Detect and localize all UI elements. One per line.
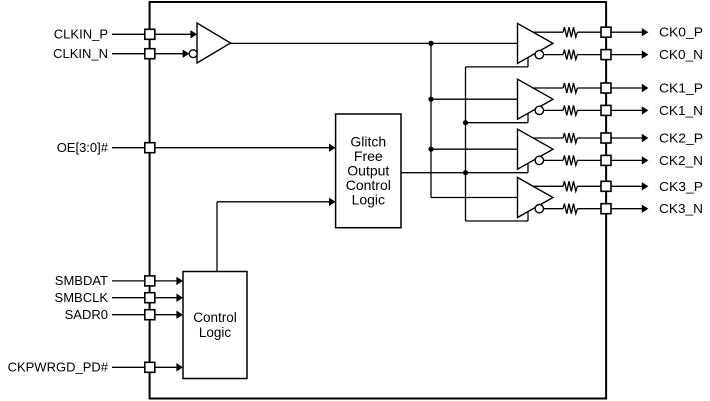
wire CK1_P pad to arrow — [611, 87, 642, 89]
junction clock rail at CK0 — [428, 41, 433, 46]
wire CK1_N pad to arrow — [611, 109, 642, 111]
wire enable rail vertical — [465, 67, 467, 221]
node pad CK0_N — [601, 50, 611, 60]
wire CLKIN_N pad to input buffer bubble — [155, 53, 184, 55]
node pad CK3_P — [601, 181, 611, 191]
wire SMBCLK label to pad — [112, 297, 145, 299]
op-amp output buffer CK1 — [518, 79, 554, 119]
wire CK1_N output — [543, 109, 563, 111]
wire CK3_P output — [533, 185, 563, 187]
svg-text:SMBCLK: SMBCLK — [55, 290, 109, 305]
op-amp output buffer CK3 — [518, 178, 554, 218]
node pad CLKIN_N — [145, 49, 155, 59]
junction clock rail at CK1 — [428, 97, 433, 102]
svg-text:CLKIN_P: CLKIN_P — [54, 27, 108, 42]
resistor R8 on CK3_N — [563, 204, 577, 214]
wire SADR0 label to pad — [112, 314, 145, 316]
junction clock rail at CK2 — [428, 147, 433, 152]
wire CK2_P output — [533, 137, 563, 139]
wire clock stub to buffer CK1 — [431, 98, 518, 100]
junction enable rail at glitch output — [463, 170, 468, 175]
wire OE[3:0]# pad to glitch logic — [155, 147, 330, 149]
svg-text:SADR0: SADR0 — [65, 307, 108, 322]
wire clock rail horizontal — [231, 42, 518, 44]
op-amp input buffer U2 — [197, 23, 231, 63]
wire CK1_P resistor to pad — [577, 87, 601, 89]
wire CK3_N resistor to pad — [577, 208, 601, 210]
svg-text:SMBDAT: SMBDAT — [55, 273, 108, 288]
node pad OE[3:0]# — [145, 143, 155, 153]
resistor R3 on CK1_P — [563, 83, 577, 93]
node pad SMBCLK — [145, 293, 155, 303]
wire CK0_N pad to arrow — [611, 54, 642, 56]
node CK3 inverting bubble — [535, 205, 543, 213]
wire CK0_P resistor to pad — [577, 31, 601, 33]
resistor R7 on CK3_P — [563, 181, 577, 191]
op-amp output buffer CK0 — [518, 23, 554, 63]
wire clock rail vertical — [430, 43, 432, 197]
svg-text:CLKIN_N: CLKIN_N — [53, 46, 108, 61]
op-amp output buffer CK2 — [518, 129, 554, 169]
junction enable rail at CK1 — [463, 120, 468, 125]
resistor R1 on CK0_P — [563, 27, 577, 37]
resistor R2 on CK0_N — [563, 50, 577, 60]
wire enable stub to buffer CK1 — [466, 122, 529, 124]
wire CK1_N resistor to pad — [577, 109, 601, 111]
svg-text:Control: Control — [193, 310, 237, 325]
wire CK0_P pad to arrow — [611, 31, 642, 33]
wire CK2_N pad to arrow — [611, 159, 642, 161]
node pad CK2_P — [601, 133, 611, 143]
svg-text:CK0_P: CK0_P — [659, 25, 703, 40]
wire CK3_N pad to arrow — [611, 208, 642, 210]
wire CK3_P resistor to pad — [577, 185, 601, 187]
wire clock stub to buffer CK2 — [431, 148, 518, 150]
wire CK3_N output — [543, 208, 563, 210]
svg-text:Logic: Logic — [199, 325, 232, 340]
wire SMBDAT pad to control logic — [155, 280, 177, 282]
node pad SMBDAT — [145, 276, 155, 286]
wire CLKIN_N label to pad — [112, 53, 145, 55]
wire CK0_P output — [533, 31, 563, 33]
wire SADR0 pad to control logic — [155, 314, 177, 316]
node input buffer inverting bubble — [189, 50, 197, 58]
svg-text:CK3_P: CK3_P — [659, 179, 703, 194]
node pad CK2_N — [601, 155, 611, 165]
svg-text:CK1_N: CK1_N — [659, 103, 703, 118]
resistor R6 on CK2_N — [563, 155, 577, 165]
wire enable stub to buffer CK2 — [401, 172, 528, 174]
wire enable stub to buffer CK0 — [466, 66, 529, 68]
node pad CK0_P — [601, 27, 611, 37]
svg-text:Logic: Logic — [352, 191, 385, 207]
svg-text:CK1_P: CK1_P — [659, 81, 703, 96]
wire control logic to glitch logic — [216, 202, 218, 272]
glitch free output control logic box U3 — [336, 114, 401, 228]
node pad CLKIN_P — [145, 29, 155, 39]
resistor R5 on CK2_P — [563, 133, 577, 143]
node pad SADR0 — [145, 310, 155, 320]
wire clock stub to buffer CK3 — [431, 197, 518, 199]
wire CK2_N output — [543, 159, 563, 161]
chip boundary U1 — [150, 2, 606, 399]
wire enable stub to buffer CK3 — [466, 220, 529, 222]
node CK0 inverting bubble — [535, 50, 543, 58]
svg-text:CK2_P: CK2_P — [659, 131, 703, 146]
wire CKPWRGD_PD# label to pad — [112, 366, 145, 368]
wire CLKIN_P label to pad — [112, 33, 145, 35]
wire SMBDAT label to pad — [112, 280, 145, 282]
svg-text:OE[3:0]#: OE[3:0]# — [57, 140, 109, 155]
wire CK0_N output — [543, 54, 563, 56]
svg-text:CK3_N: CK3_N — [659, 201, 703, 216]
wire CKPWRGD_PD# pad to control logic — [155, 366, 177, 368]
svg-text:CKPWRGD_PD#: CKPWRGD_PD# — [8, 360, 109, 375]
node CK1 inverting bubble — [535, 106, 543, 114]
wire SMBCLK pad to control logic — [155, 297, 177, 299]
wire CK2_P resistor to pad — [577, 137, 601, 139]
wire CK2_P pad to arrow — [611, 137, 642, 139]
wire OE[3:0]# label to pad — [112, 147, 145, 149]
svg-text:CK0_N: CK0_N — [659, 47, 703, 62]
svg-text:CK2_N: CK2_N — [659, 153, 703, 168]
node CK2 inverting bubble — [535, 156, 543, 164]
wire CK0_N resistor to pad — [577, 54, 601, 56]
wire CK3_P pad to arrow — [611, 185, 642, 187]
node pad CK1_P — [601, 83, 611, 93]
wire CK2_N resistor to pad — [577, 159, 601, 161]
node pad CKPWRGD_PD# — [145, 362, 155, 372]
node pad CK3_N — [601, 204, 611, 214]
wire CK1_P output — [533, 87, 563, 89]
node pad CK1_N — [601, 105, 611, 115]
wire CLKIN_P pad to input buffer — [155, 33, 191, 35]
control logic box U4 — [183, 272, 247, 379]
resistor R4 on CK1_N — [563, 105, 577, 115]
